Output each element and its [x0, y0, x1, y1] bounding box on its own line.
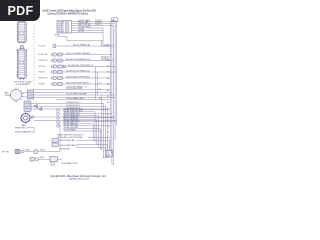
wire [24, 151, 34, 153]
svg-text:973-WH WARN LAMP: 973-WH WARN LAMP [66, 97, 85, 100]
svg-text:964-GN OIL PRESSURE B 24: 964-GN OIL PRESSURE B 24 [66, 59, 90, 61]
svg-text:998-BU 153: 998-BU 153 [39, 78, 48, 80]
PDF badge [0, 0, 40, 21]
svg-text:Courtesy of SOMEGUY BARRINGTON: Courtesy of SOMEGUY BARRINGTON (06 rev) [47, 13, 88, 16]
wire (gear out 2) [34, 120, 117, 122]
wire r6 [63, 117, 97, 120]
svg-text:965-YL COOLANT TEMP A 35: 965-YL COOLANT TEMP A 35 [66, 52, 90, 55]
svg-text:P6 SHD: P6 SHD [58, 32, 65, 34]
svg-text:701-WH INJ SOL 1: 701-WH INJ SOL 1 [66, 102, 80, 104]
node B+ (top-right terminal box) [111, 18, 118, 22]
svg-text:All Rights Reserved: All Rights Reserved [69, 178, 89, 181]
svg-text:66: 66 [107, 90, 109, 92]
svg-text:702-GN INJ SOL 2: 702-GN INJ SOL 2 [66, 105, 80, 107]
ladder vertical L4 [98, 116, 100, 148]
wire r1 [57, 108, 111, 111]
svg-text:995-GN: 995-GN [39, 72, 46, 74]
wire [38, 123, 60, 152]
bus vertical V1 [109, 22, 111, 150]
svg-text:994-BR 151: 994-BR 151 [39, 60, 48, 62]
svg-text:200-BK: 200-BK [54, 35, 61, 37]
svg-text:P2: P2 [102, 58, 104, 60]
bus pin labels right [107, 60, 109, 135]
svg-text:401-OR TIMING CAL: 401-OR TIMING CAL [73, 43, 90, 46]
svg-text:114-YL 9: 114-YL 9 [95, 24, 102, 26]
bus vertical V9 [107, 109, 109, 150]
bus vertical V6 [101, 41, 103, 150]
svg-text:126: 126 [66, 32, 69, 34]
wire (mag B) [22, 96, 28, 98]
sensor S3 (oil pressure) [51, 57, 114, 63]
wire (tb1 b) [58, 145, 107, 158]
sensor S6 (atmos pressure) [51, 75, 110, 79]
bus vertical V4 [114, 24, 116, 141]
svg-text:463-GY START AID RLY: 463-GY START AID RLY [60, 144, 79, 147]
plug P9 [15, 149, 20, 153]
svg-text:971-PU ENG SPEED -: 971-PU ENG SPEED - [66, 88, 84, 90]
magneto pickup M1 [5, 83, 31, 103]
ladder vertical L5 [99, 129, 101, 150]
svg-text:449-RD LAMP DRV: 449-RD LAMP DRV [64, 123, 80, 126]
svg-text:43: 43 [99, 98, 101, 100]
bus pin labels mid [99, 83, 101, 100]
wire r2 [63, 110, 95, 112]
connector bullet on V2 [111, 151, 113, 153]
connector J2 (ECM interface strip) [16, 46, 28, 80]
fuel shutoff chain row 1 [15, 123, 60, 154]
wire [57, 158, 62, 160]
svg-text:61: 61 [107, 60, 109, 62]
wire (U return) [112, 164, 114, 165]
wire r8b [57, 123, 111, 127]
J2 footer label [14, 81, 32, 86]
svg-text:F711-GN: F711-GN [39, 46, 47, 48]
svg-text:63: 63 [107, 72, 109, 74]
svg-text:62: 62 [107, 66, 109, 68]
wire (inj 1) [31, 102, 104, 104]
svg-text:999-WH: 999-WH [39, 84, 46, 86]
terminal block TB1 [52, 139, 109, 158]
svg-text:459-GN SPARE: 459-GN SPARE [64, 129, 77, 132]
sensor S7 (inlet air temp) [51, 81, 112, 85]
fuse F1 [34, 150, 38, 153]
wire r8 [63, 121, 93, 124]
wire r9 [63, 127, 100, 129]
sensor S1 (timing cal) [53, 43, 110, 47]
svg-text:966-GY INLET AIR TEMP 21: 966-GY INLET AIR TEMP 21 [66, 81, 89, 84]
harness boundary (dashed) [33, 25, 35, 87]
svg-text:42: 42 [99, 89, 101, 91]
wire r3 [57, 111, 112, 115]
connector J1 (ECM interface strip) [17, 22, 28, 44]
wire (inj 3) [31, 108, 108, 110]
wire r10 [63, 129, 102, 132]
svg-text:70: 70 [107, 114, 109, 116]
connector J3 (injection unit) [24, 101, 31, 112]
sensor S5 (boost pressure) [51, 70, 117, 74]
junction box JB1 (bottom right) [106, 150, 112, 157]
bus vertical V5 [116, 21, 118, 125]
svg-text:SNSR COMMON: SNSR COMMON [15, 132, 30, 134]
svg-text:65: 65 [107, 84, 109, 86]
wire (battery +) [72, 19, 117, 22]
svg-text:72: 72 [107, 126, 109, 128]
ladder vertical L2 [94, 112, 96, 143]
wire (relay out 2) [34, 93, 114, 95]
wire (k2 out) [88, 136, 110, 138]
svg-text:F712-PK: F712-PK [39, 66, 47, 68]
solenoid L1 [30, 157, 34, 161]
bus vertical V3 [113, 26, 115, 164]
wire (relay out 3) [34, 97, 116, 99]
relay box K3 [50, 157, 57, 162]
wire (gear out) [30, 116, 115, 118]
sensor S4 (fuel temp) [51, 65, 115, 69]
wire (row 99.5) [56, 97, 110, 100]
wire (relay out 1) [34, 91, 112, 93]
breaker CB2 [36, 158, 39, 161]
wire (short stub 1) [72, 29, 104, 31]
wire (lower link) [76, 148, 109, 158]
svg-text:CUSTOMER CONN: CUSTOMER CONN [61, 163, 78, 165]
relay K2 group [57, 134, 110, 139]
bus vertical V7 [103, 104, 105, 158]
svg-text:PDF: PDF [7, 4, 33, 18]
diode D1 [34, 104, 43, 111]
svg-text:224-BK: 224-BK [104, 44, 111, 46]
svg-text:997-OR: 997-OR [78, 31, 85, 33]
svg-text:68: 68 [107, 102, 109, 104]
bus vertical V2 [111, 24, 113, 164]
svg-text:64: 64 [107, 78, 109, 80]
fuel shutoff chain row 2 [30, 157, 62, 166]
vertical tie x95 [96, 67, 98, 100]
wire [39, 158, 51, 160]
wire r5 [57, 115, 114, 119]
wire (mag A) [22, 91, 28, 93]
wire (unswitched supply with elbow) [72, 27, 104, 47]
pilot circle [51, 162, 55, 166]
svg-text:PICKUP: PICKUP [5, 95, 12, 97]
svg-text:SNSR PWR +5V: SNSR PWR +5V [15, 127, 29, 129]
wire r4 [63, 113, 99, 116]
svg-text:962-BR BOOST PRESS B 42: 962-BR BOOST PRESS B 42 [66, 70, 90, 72]
wire (inj 2) [31, 105, 106, 107]
wire r7 [57, 119, 116, 123]
wire (ground elbow) [54, 35, 103, 41]
svg-text:69: 69 [107, 108, 109, 110]
svg-text:961-WH FUEL TEMP SNSR 13: 961-WH FUEL TEMP SNSR 13 [68, 65, 93, 67]
wire (tb1 a) [58, 140, 109, 157]
relay K1 [28, 90, 34, 99]
svg-text:73: 73 [107, 132, 109, 134]
bus vertical V8 [105, 106, 107, 157]
svg-text:KEY SW: KEY SW [2, 151, 9, 153]
wire (short stub 2) [72, 31, 104, 33]
svg-text:963-BU ATMOS PRESS A 40: 963-BU ATMOS PRESS A 40 [66, 75, 89, 78]
svg-text:464-BU GND: 464-BU GND [60, 149, 71, 151]
breaker CB1 [21, 150, 24, 153]
svg-text:Copyright 2004 - Mikes Diesel: Copyright 2004 - Mikes Diesel Informatio… [50, 175, 106, 178]
svg-text:993-GY 150: 993-GY 150 [39, 54, 48, 56]
svg-text:461-RD AUX OUTPUT DRIVER: 461-RD AUX OUTPUT DRIVER [57, 136, 83, 139]
sensor S2 (coolant temp) [51, 52, 112, 56]
wire (elbow x103 join) [103, 44, 114, 46]
ladder vertical L3 [96, 120, 98, 145]
dense wire block rows [57, 108, 116, 131]
ladder vertical L1 [92, 124, 94, 140]
svg-text:41: 41 [99, 83, 101, 85]
wire (sensor pwr) [28, 128, 34, 133]
speed sensor gear G1 [20, 112, 32, 128]
svg-text:67: 67 [107, 96, 109, 98]
svg-text:71: 71 [107, 120, 109, 122]
wire (battery -) [72, 21, 116, 24]
node column labels (harness side) [39, 46, 48, 86]
svg-text:462-PK START AID: 462-PK START AID [60, 139, 75, 142]
wire (key switch) [72, 24, 114, 26]
svg-text:972-GY CHECK ENGINE: 972-GY CHECK ENGINE [66, 93, 87, 95]
svg-text:J2: J2 [106, 58, 108, 60]
wire (speed signal) [34, 87, 111, 91]
legend box [57, 21, 72, 34]
node labels (left sensor returns) [15, 127, 34, 133]
